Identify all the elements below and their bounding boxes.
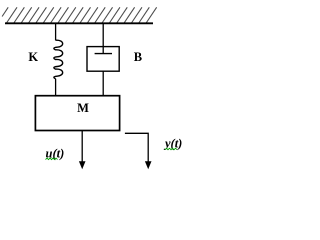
damper cylinder B bbox=[87, 47, 119, 72]
output arrow y(t) head bbox=[145, 161, 152, 169]
input arrow u(t) shaft bbox=[81, 131, 83, 162]
wire: damper bottom rod bbox=[102, 71, 104, 96]
spell-check squiggle under y(t) bbox=[165, 148, 177, 150]
damper piston plate bbox=[95, 53, 112, 55]
svg-text:u(t): u(t) bbox=[46, 146, 65, 160]
mass M box bbox=[35, 96, 119, 131]
wire: damper top rod bbox=[102, 24, 104, 54]
svg-text:M: M bbox=[77, 101, 89, 115]
ceiling hatching bbox=[2, 7, 157, 23]
wire: spring bottom stem bbox=[55, 79, 57, 96]
output line y(t): horizontal takeoff bbox=[125, 133, 148, 162]
spring K coil bbox=[54, 40, 63, 79]
svg-text:B: B bbox=[134, 50, 142, 64]
svg-text:K: K bbox=[28, 50, 38, 64]
wire: spring top stem bbox=[55, 24, 57, 41]
spell-check squiggle under u(t) bbox=[46, 158, 58, 160]
input arrow u(t) head bbox=[79, 161, 86, 169]
ceiling baseline bbox=[5, 22, 153, 24]
